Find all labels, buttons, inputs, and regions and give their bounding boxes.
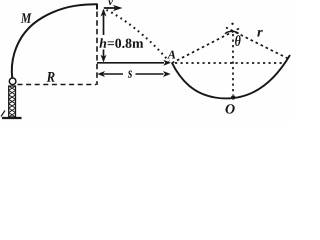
point O dot <box>231 95 235 99</box>
label R <box>47 72 55 82</box>
curved ramp track M <box>12 4 97 78</box>
dashed vertical radius C to O <box>232 34 234 95</box>
label v <box>108 0 113 5</box>
dashed horizontal line R level <box>18 84 97 86</box>
s dimension line (double headed) <box>104 73 164 75</box>
stray dash above center C <box>231 23 233 25</box>
label M <box>21 13 32 23</box>
spring post crosshatch <box>9 86 16 117</box>
circular valley arc A to right end <box>172 55 290 98</box>
dashed vertical drop line below cliff edge <box>96 12 98 86</box>
label A <box>167 51 175 59</box>
label O <box>226 104 235 113</box>
level line at A with arrow <box>97 62 164 64</box>
h dimension arrow (vertical, double headed) <box>103 10 105 61</box>
cliff edge corner <box>96 4 98 9</box>
dashed radius C to A (extended past C) <box>172 29 239 64</box>
dashed horizontal chord from A <box>175 62 284 64</box>
ball on spring <box>9 78 16 85</box>
velocity v arrow at cliff top <box>104 7 115 9</box>
dotted projectile trajectory <box>107 10 170 62</box>
base line under spring <box>2 117 22 119</box>
ground hatch tick <box>1 111 5 117</box>
label r <box>257 30 263 37</box>
dashed radius C to right arc end (extended past C) <box>226 28 288 59</box>
label h=0.8m with white backing <box>98 36 142 49</box>
angle arc at center C <box>225 31 239 33</box>
label theta <box>235 35 241 46</box>
label s <box>128 71 132 78</box>
